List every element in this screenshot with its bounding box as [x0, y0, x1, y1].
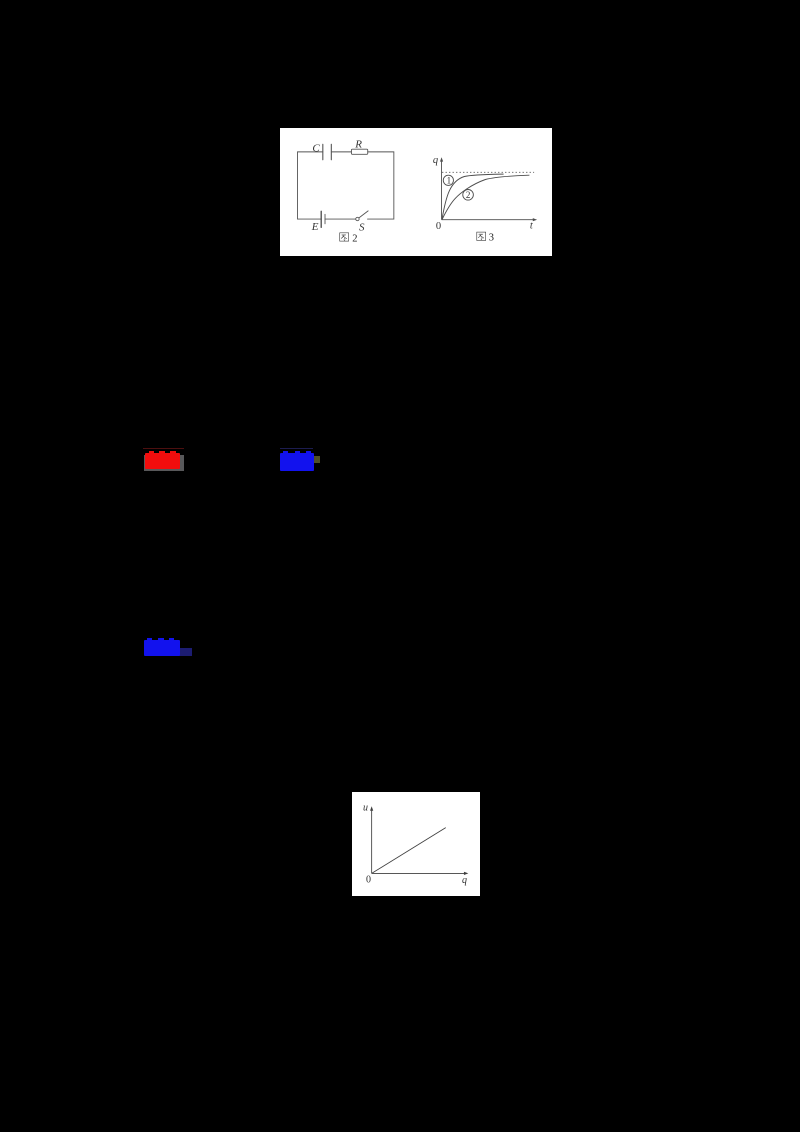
curve 1 fast charge: [442, 174, 504, 219]
caption 图3: [476, 232, 485, 240]
dark red strike line over red blob: [143, 448, 184, 449]
svg-text:3: 3: [488, 232, 493, 243]
blue annotation blob 2: [177, 648, 192, 656]
red annotation blob: [144, 455, 184, 471]
svg-text:q: q: [462, 875, 467, 886]
u-q axes: [372, 809, 466, 873]
dark red strike line over blue blob: [280, 448, 313, 449]
circled 1: [443, 175, 453, 186]
svg-text:2: 2: [466, 190, 471, 200]
svg-text:t: t: [530, 220, 534, 231]
x-axis: [441, 218, 534, 220]
capacitor C plates: [323, 144, 332, 160]
svg-text:u: u: [363, 802, 368, 813]
figure panel: circuit 图2 + graph 图3: [280, 128, 552, 256]
linear u(q) line: [372, 827, 446, 873]
svg-text:R: R: [354, 138, 362, 150]
svg-text:S: S: [359, 221, 365, 233]
x arrowhead: [532, 218, 536, 221]
battery E plates: [320, 211, 322, 227]
dotted asymptote: [442, 171, 534, 173]
svg-text:1: 1: [446, 175, 451, 185]
svg-text:0: 0: [436, 220, 441, 231]
graph axes q/t: [441, 159, 534, 219]
y-axis: [440, 159, 442, 219]
y arrowhead: [440, 157, 443, 161]
switch S circle: [355, 217, 358, 220]
circled 2: [462, 189, 473, 200]
curve 2 slow charge: [442, 175, 529, 219]
resistor R body: [351, 149, 367, 154]
graph panel: u vs q: [352, 792, 480, 896]
wire circuit loop: [297, 151, 393, 218]
y arrowhead: [370, 806, 373, 810]
blue annotation blob 1: [312, 456, 320, 463]
svg-text:E: E: [310, 221, 318, 233]
svg-text:0: 0: [366, 874, 371, 885]
svg-text:C: C: [312, 142, 320, 154]
svg-text:q: q: [433, 154, 438, 165]
caption 图2: [339, 232, 348, 240]
x arrowhead: [464, 872, 468, 875]
switch S lever: [359, 210, 368, 217]
svg-text:2: 2: [352, 233, 357, 244]
